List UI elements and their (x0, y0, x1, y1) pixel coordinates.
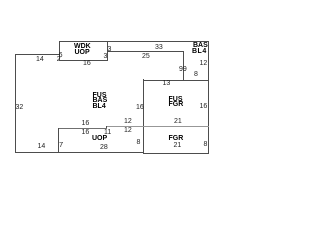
label 21 lower (174, 142, 182, 149)
section label BAS top right (193, 42, 208, 49)
label 25 (142, 53, 150, 60)
porch top edge (16/16 ft) (58, 128, 107, 129)
left wall edge (32 ft) (15, 54, 16, 152)
label 3 lower (104, 53, 108, 60)
section label FUS upper garage (169, 96, 183, 103)
label 16 left of garage (136, 104, 144, 111)
label 16 below porch top (82, 129, 90, 136)
house label FUS (93, 92, 107, 99)
label 3 upper (108, 46, 112, 53)
deck label UOP (75, 49, 90, 56)
deck WDK right edge (107, 41, 108, 60)
top wall edge incl. WDK top (33 ft) (59, 41, 209, 42)
bottom wall edge left (14+28 ft) (15, 152, 144, 153)
label 12 upper (124, 118, 132, 125)
label 2 (57, 56, 61, 63)
house top edge (25 ft) (107, 51, 184, 52)
label 32 (16, 104, 24, 111)
deck label WDK (74, 43, 91, 50)
deck WDK bottom edge (16 ft) (59, 60, 108, 61)
garage label FGR (169, 135, 184, 142)
porch left edge (7 ft) (58, 128, 59, 152)
section label BL4 top right (192, 48, 207, 55)
label 16 under deck (83, 60, 91, 67)
garage left edge (143, 79, 144, 154)
right wall edge (208, 41, 209, 154)
deck WDK left edge (59, 41, 60, 60)
label 33 (155, 44, 163, 51)
label 8 right of garage (204, 141, 208, 148)
label 28 (100, 144, 108, 151)
label 13 (163, 80, 171, 87)
label 16 above porch (82, 120, 90, 127)
label 14 top (36, 56, 44, 63)
label 12 lower (124, 127, 132, 134)
mid horizontal edge (12/21 ft) (106, 126, 209, 127)
shared vertical edge (9/9) (183, 51, 184, 80)
garage top edge (13+8 ft) (143, 80, 209, 81)
label 11 step (104, 129, 111, 136)
label 16 right edge (200, 103, 208, 110)
top-left wall edge (14 ft) (15, 54, 60, 55)
label 21 upper (174, 118, 182, 125)
label 8 above garage top (194, 71, 198, 78)
label 12 right edge (200, 60, 208, 67)
label 99 (179, 66, 187, 73)
garage bottom edge (21 ft) (143, 153, 209, 154)
label 14 bottom (38, 143, 46, 150)
section label FGR upper garage (169, 101, 184, 108)
step vertical edge (1/1 ft) (106, 126, 107, 129)
house label BL4 (93, 103, 106, 110)
label 8 left of garage (137, 139, 141, 146)
porch label UOP (92, 135, 107, 142)
house label BAS (93, 97, 108, 104)
label 6 (59, 52, 63, 59)
label 7 (59, 141, 63, 148)
